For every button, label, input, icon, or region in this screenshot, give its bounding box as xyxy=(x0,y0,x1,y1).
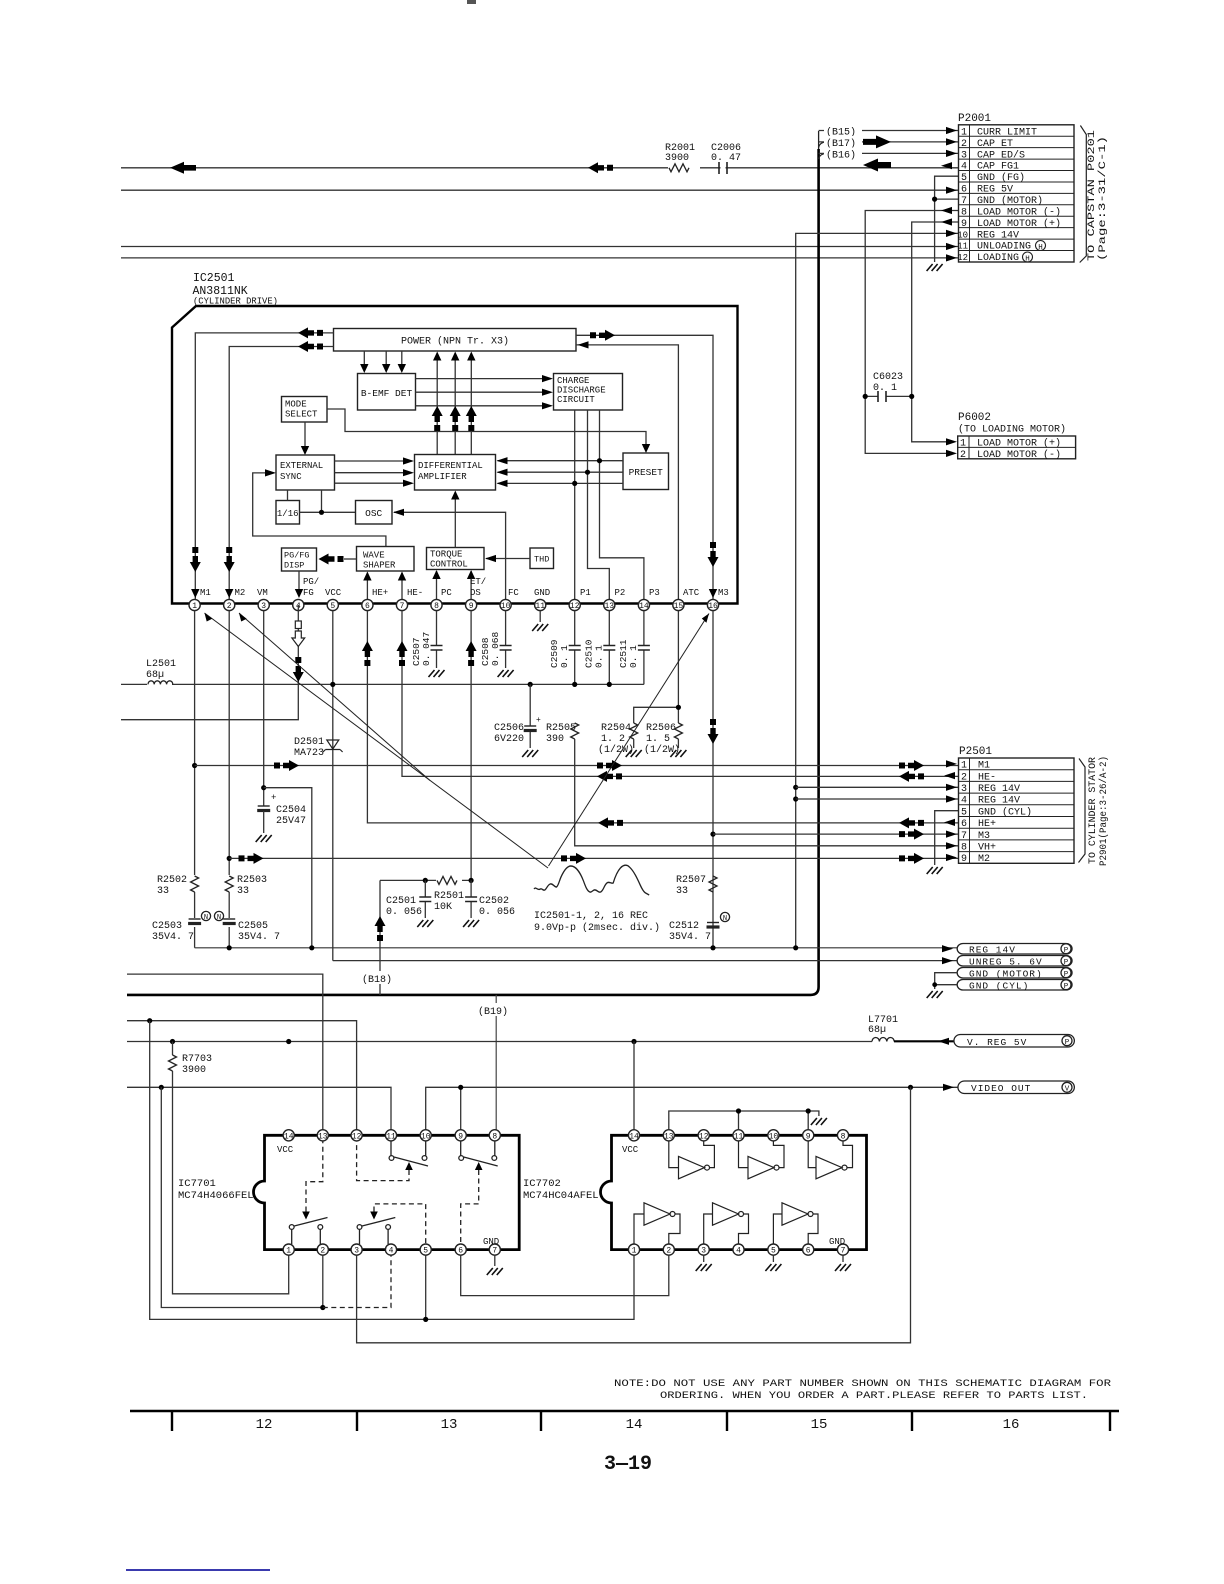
P2001 pin7 GND(MOTOR) wire xyxy=(935,198,958,200)
left arrow on M2 power wire xyxy=(298,341,323,352)
svg-text:N: N xyxy=(204,914,208,922)
svg-text:PC: PC xyxy=(441,588,452,598)
svg-text:2: 2 xyxy=(961,139,967,150)
switch SW1 pins11-10 xyxy=(389,1141,428,1166)
wire C2501/R2501/C2502 node xyxy=(380,879,471,881)
svg-text:C2506: C2506 xyxy=(494,723,524,734)
pin7 HE- vertical and wire to P2501 pin2 xyxy=(402,611,958,777)
svg-text:1. 5: 1. 5 xyxy=(646,734,670,745)
junction dots REG14V vertical to P2501 pins3/4 xyxy=(793,785,798,790)
svg-text:ORDERING. WHEN YOU ORDER A PAR: ORDERING. WHEN YOU ORDER A PART.PLEASE R… xyxy=(660,1390,1088,1402)
svg-text:FC: FC xyxy=(508,588,519,598)
svg-text:LOAD MOTOR (-): LOAD MOTOR (-) xyxy=(977,449,1061,461)
svg-text:15: 15 xyxy=(811,1417,828,1433)
svg-text:2: 2 xyxy=(960,450,966,461)
dashed down arrow on pin16 internal xyxy=(708,542,719,567)
pin2 vertical chain M2 xyxy=(228,611,230,948)
wire POWER right to M3 pin16 xyxy=(576,335,713,599)
svg-text:(B19): (B19) xyxy=(478,1006,508,1018)
svg-text:0. 056: 0. 056 xyxy=(479,907,515,918)
svg-text:VCC: VCC xyxy=(325,588,342,598)
svg-text:+: + xyxy=(536,716,541,725)
svg-text:VH+: VH+ xyxy=(978,843,996,854)
node B15 label xyxy=(824,124,862,136)
svg-text:1. 2: 1. 2 xyxy=(601,734,625,745)
svg-text:10: 10 xyxy=(501,602,511,611)
wire UNLOADING top horizontal xyxy=(121,246,958,248)
dashed down arrow on pin1 internal xyxy=(190,547,201,572)
svg-text:0. 1: 0. 1 xyxy=(628,645,639,668)
wire POWER right to ATC pin15 xyxy=(576,345,678,599)
pin10 FC with C2508 to ground xyxy=(505,611,507,668)
svg-text:3: 3 xyxy=(961,150,967,161)
IC7702 box with left notch xyxy=(601,1135,867,1249)
svg-text:WAVE: WAVE xyxy=(363,551,385,561)
block EXTERNAL SYNC xyxy=(276,455,335,490)
svg-text:11: 11 xyxy=(535,602,545,611)
svg-text:V. REG 5V: V. REG 5V xyxy=(967,1037,1027,1048)
svg-text:UNLOADING: UNLOADING xyxy=(977,242,1031,253)
svg-text:8: 8 xyxy=(961,207,967,218)
svg-text:0. 1: 0. 1 xyxy=(594,645,605,668)
svg-text:1/16: 1/16 xyxy=(277,509,299,519)
svg-text:R2502: R2502 xyxy=(157,875,187,886)
circled N for C2503 xyxy=(201,911,210,920)
ruler numbers xyxy=(256,1417,1020,1433)
VIDEO OUT rail left segment to pin11 IC7701 xyxy=(127,1087,391,1129)
wire TORQUE CONTROL to DIFF AMP xyxy=(454,492,456,548)
wire left stub to pin13 IC7701 top loop xyxy=(127,974,323,1129)
svg-text:IC2501-1, 2, 16 REC: IC2501-1, 2, 16 REC xyxy=(534,911,648,922)
pin13 P2 vertical with C2510 xyxy=(608,611,610,685)
svg-text:L2501: L2501 xyxy=(146,659,176,670)
svg-text:GND: GND xyxy=(534,588,550,598)
svg-text:P: P xyxy=(1064,983,1069,991)
svg-text:VIDEO OUT: VIDEO OUT xyxy=(971,1083,1031,1094)
svg-text:R7703: R7703 xyxy=(182,1054,212,1065)
junction dot pin7/gnd vertical xyxy=(932,197,937,202)
UNREG rail from VCC pin5 xyxy=(333,960,957,962)
svg-text:12: 12 xyxy=(256,1417,273,1433)
svg-text:35V4. 7: 35V4. 7 xyxy=(669,932,711,943)
svg-text:13: 13 xyxy=(664,1132,674,1141)
svg-text:4: 4 xyxy=(389,1247,394,1256)
pin4 white arrow + black arrow xyxy=(297,605,299,684)
inverter U2B top xyxy=(739,1141,785,1179)
svg-text:GND (CYL): GND (CYL) xyxy=(978,806,1032,818)
V.REG 5V rail xyxy=(127,1041,872,1043)
svg-text:9: 9 xyxy=(806,1132,811,1141)
svg-text:10: 10 xyxy=(421,1132,431,1141)
svg-text:B-EMF DET: B-EMF DET xyxy=(361,388,413,399)
bottom wire IC7701 pin6 to IC7702 pin2 xyxy=(461,1255,669,1295)
svg-text:MC74H4066FEL: MC74H4066FEL xyxy=(178,1190,254,1202)
VIDEO OUT rail right segment pins10/9 to pill xyxy=(426,1087,958,1129)
footer ruler line xyxy=(130,1410,1119,1412)
junction dots on preset wires xyxy=(597,458,602,463)
svg-text:IC7701: IC7701 xyxy=(178,1178,216,1190)
pin16 M3 vertical chain xyxy=(712,611,714,948)
pin6 HE+ vertical and wire to P2501 pin6 xyxy=(367,611,958,823)
svg-text:R2507: R2507 xyxy=(676,875,706,886)
thick vertical bus B17 with rounded corner to left-going thick wire xyxy=(818,131,820,150)
svg-text:16: 16 xyxy=(708,602,718,611)
svg-text:C2512: C2512 xyxy=(669,921,699,932)
svg-text:MC74HC04AFEL: MC74HC04AFEL xyxy=(523,1190,599,1202)
wire 1/16 to OSC with branch up xyxy=(300,490,356,512)
diode D2501 MA723 zener xyxy=(293,735,329,757)
svg-text:0. 068: 0. 068 xyxy=(490,631,501,666)
svg-text:P: P xyxy=(1064,959,1069,967)
IC7702 pin14 VCC vertical to rail xyxy=(633,1042,635,1130)
svg-text:IC2501: IC2501 xyxy=(193,272,235,285)
svg-text:P2901(Page:3-26/A-2): P2901(Page:3-26/A-2) xyxy=(1098,756,1110,866)
svg-text:(1/2W): (1/2W) xyxy=(644,744,680,756)
wire M1 to P2501 pin1 xyxy=(195,765,958,767)
pin8 PC vertical with C2507 to ground xyxy=(436,611,438,668)
svg-text:HE+: HE+ xyxy=(372,588,388,598)
blue underline bottom left xyxy=(126,1569,270,1571)
svg-text:SHAPER: SHAPER xyxy=(363,561,396,571)
svg-text:V: V xyxy=(1065,1086,1070,1094)
svg-text:2: 2 xyxy=(961,772,967,783)
capacitor C2502 0.056 xyxy=(470,880,472,918)
svg-text:REG 5V: REG 5V xyxy=(977,185,1013,196)
wire MODE SELECT to PRESET top xyxy=(327,409,646,451)
svg-text:DIFFERENTIAL: DIFFERENTIAL xyxy=(418,461,483,471)
circled N for C2505 xyxy=(214,911,223,920)
svg-text:CONTROL: CONTROL xyxy=(430,560,468,570)
svg-text:(B16): (B16) xyxy=(826,150,856,162)
svg-text:68µ: 68µ xyxy=(868,1025,886,1036)
wire MODE SELECT to EXTERNAL SYNC xyxy=(304,422,306,453)
svg-text:THD: THD xyxy=(534,555,549,565)
svg-text:SELECT: SELECT xyxy=(285,410,318,420)
svg-text:14: 14 xyxy=(639,602,649,611)
P2001 pin5 GND(FG) wire and vertical xyxy=(935,176,958,262)
block PG/FG DISP xyxy=(282,548,317,571)
svg-text:REG 14V: REG 14V xyxy=(978,784,1020,795)
wire WAVE SHAPER to EXTERNAL SYNC xyxy=(253,473,386,547)
wire main L2501 rail xyxy=(121,683,644,685)
svg-text:7: 7 xyxy=(841,1247,846,1256)
svg-text:16: 16 xyxy=(1003,1417,1020,1433)
svg-text:33: 33 xyxy=(676,886,688,897)
pin14 P3 vertical with C2511 xyxy=(643,611,645,685)
wire PG/FG DISP down to pin4 xyxy=(298,571,300,596)
svg-text:10K: 10K xyxy=(434,902,452,913)
wires DIFF AMP up to POWER with dashed up arrows xyxy=(437,353,471,455)
svg-text:C2503: C2503 xyxy=(152,921,182,932)
svg-text:1: 1 xyxy=(961,127,967,138)
svg-text:R2501: R2501 xyxy=(434,891,464,902)
IC7701 bottom pin circles xyxy=(283,1244,500,1255)
block WAVE SHAPER xyxy=(357,547,415,572)
bottom wire IC7701 pin3 to VIDEO OUT rail xyxy=(357,1087,911,1343)
P2001 pin8 LOAD MOTOR(-) wire down to P6002 xyxy=(865,211,958,454)
svg-text:UNREG 5. 6V: UNREG 5. 6V xyxy=(969,956,1043,967)
wire M2 to P2501 pin9 xyxy=(229,857,958,859)
inverter U2D bottom xyxy=(634,1203,680,1244)
svg-text:PG/FG: PG/FG xyxy=(284,551,310,561)
svg-text:REG 14V: REG 14V xyxy=(978,796,1020,807)
capacitor C2006 xyxy=(709,144,749,162)
wire CAP FG1 top horizontal xyxy=(121,167,958,169)
block DIFFERENTIAL AMPLIFIER xyxy=(415,455,496,491)
switch SW4 pins3-4 xyxy=(357,1218,395,1245)
svg-text:GND: GND xyxy=(483,1237,499,1247)
svg-text:+: + xyxy=(271,793,276,803)
svg-text:MODE: MODE xyxy=(285,400,307,410)
svg-text:M3: M3 xyxy=(978,831,990,842)
svg-text:9: 9 xyxy=(458,1132,463,1141)
svg-text:25V47: 25V47 xyxy=(276,816,306,827)
svg-text:13: 13 xyxy=(604,602,614,611)
svg-text:VCC: VCC xyxy=(277,1145,294,1155)
connector P2001 xyxy=(957,113,1109,264)
svg-text:CIRCUIT: CIRCUIT xyxy=(557,395,595,405)
svg-text:33: 33 xyxy=(237,886,249,897)
svg-text:5: 5 xyxy=(330,602,335,611)
svg-text:ET/: ET/ xyxy=(470,577,486,587)
svg-text:1: 1 xyxy=(192,602,197,611)
wire HE+ pin6 up to WAVE SHAPER xyxy=(366,573,368,600)
wire PC pin8 up to TORQUE CONTROL xyxy=(436,571,438,599)
svg-text:14: 14 xyxy=(626,1417,643,1433)
node B16 label xyxy=(824,148,862,160)
svg-text:PG/: PG/ xyxy=(303,577,319,587)
svg-text:M2: M2 xyxy=(235,588,246,598)
arrowheads into P2001 rows xyxy=(946,127,957,134)
svg-text:4: 4 xyxy=(736,1247,741,1256)
block TORQUE CONTROL xyxy=(427,548,485,570)
wire pin2 to POWER left xyxy=(229,347,333,600)
svg-text:13: 13 xyxy=(318,1132,328,1141)
svg-text:4: 4 xyxy=(961,162,967,173)
connector P6002 xyxy=(946,412,1076,461)
svg-text:7: 7 xyxy=(400,602,405,611)
svg-text:REG 14V: REG 14V xyxy=(977,230,1019,241)
svg-text:CHARGE: CHARGE xyxy=(557,376,589,386)
svg-text:CURR LIMIT: CURR LIMIT xyxy=(977,127,1037,138)
svg-text:8: 8 xyxy=(492,1132,497,1141)
waveform oscillogram sketch xyxy=(534,865,649,895)
ground under IC7701 pin7 xyxy=(494,1255,496,1266)
svg-text:LOADING: LOADING xyxy=(977,253,1019,264)
P2001 pin10 REG 14V wire and long vertical xyxy=(796,233,958,947)
svg-text:4: 4 xyxy=(961,796,967,807)
svg-text:5: 5 xyxy=(771,1247,776,1256)
svg-text:NOTE:DO NOT USE ANY PART NUMBE: NOTE:DO NOT USE ANY PART NUMBER SHOWN ON… xyxy=(614,1378,1112,1390)
svg-text:VM: VM xyxy=(257,588,268,598)
svg-text:C2505: C2505 xyxy=(238,921,268,932)
pin1 vertical chain M1 xyxy=(194,611,196,948)
svg-text:12: 12 xyxy=(352,1132,362,1141)
svg-text:6: 6 xyxy=(961,185,967,196)
block MODE SELECT xyxy=(282,397,328,423)
junction dots C6023 xyxy=(863,394,868,399)
block PRESET xyxy=(623,453,669,490)
svg-text:D2501: D2501 xyxy=(294,737,324,748)
svg-text:CAP ET: CAP ET xyxy=(977,139,1013,150)
grounds under IC7702 pins 3,5,7 xyxy=(704,1255,843,1262)
svg-text:R2504: R2504 xyxy=(601,723,631,734)
svg-text:CAP FG1: CAP FG1 xyxy=(977,162,1019,173)
wire HE- pin7 up to WAVE SHAPER xyxy=(401,573,403,600)
IC7702 top pin circles xyxy=(628,1130,848,1141)
svg-text:P2: P2 xyxy=(615,588,626,598)
ground for P2001 GND xyxy=(927,264,943,271)
svg-text:P: P xyxy=(1064,947,1069,955)
svg-text:0. 047: 0. 047 xyxy=(421,632,432,666)
svg-text:6V220: 6V220 xyxy=(494,734,524,745)
IC2501 outer box (cylinder drive IC) xyxy=(172,306,738,604)
svg-text:VCC: VCC xyxy=(622,1145,639,1155)
IC7702 top tie line pins13/11/9 to ground xyxy=(669,1111,819,1130)
pill GND (MOTOR) (P) xyxy=(957,968,1072,980)
svg-text:15: 15 xyxy=(674,602,684,611)
IC7701 box with left notch xyxy=(254,1135,520,1249)
svg-text:H: H xyxy=(1038,244,1043,252)
svg-text:8: 8 xyxy=(841,1132,846,1141)
ground under C2504 xyxy=(256,835,272,842)
wires GND pills to ground xyxy=(935,973,957,989)
svg-text:3: 3 xyxy=(261,602,266,611)
svg-text:7: 7 xyxy=(961,196,967,207)
svg-text:5: 5 xyxy=(423,1247,428,1256)
svg-text:6: 6 xyxy=(365,602,370,611)
svg-text:IC7702: IC7702 xyxy=(523,1178,561,1190)
block B-EMF DET xyxy=(358,374,416,411)
svg-text:3: 3 xyxy=(354,1247,359,1256)
svg-text:C2502: C2502 xyxy=(479,896,509,907)
svg-text:CAP ED/S: CAP ED/S xyxy=(977,149,1025,161)
svg-text:GND (MOTOR): GND (MOTOR) xyxy=(977,195,1043,207)
svg-text:GND (MOTOR): GND (MOTOR) xyxy=(969,968,1043,979)
circled N for C2512 xyxy=(720,912,729,921)
svg-text:C2504: C2504 xyxy=(276,805,306,816)
svg-text:3—19: 3—19 xyxy=(604,1453,652,1476)
svg-text:390: 390 xyxy=(546,734,564,745)
svg-text:0. 1: 0. 1 xyxy=(873,383,897,394)
IC7702 bottom pin circles xyxy=(628,1244,848,1255)
svg-text:5: 5 xyxy=(961,807,967,818)
svg-text:P1: P1 xyxy=(580,588,591,598)
svg-text:0. 056: 0. 056 xyxy=(386,907,422,918)
wire pin1 to POWER left xyxy=(195,333,333,599)
dashed down arrow on pin2 internal xyxy=(224,547,235,572)
waveform note pointer lines to pins 1,2,16 xyxy=(205,613,549,868)
svg-text:HE-: HE- xyxy=(978,772,996,783)
svg-text:PRESET: PRESET xyxy=(629,467,664,478)
svg-text:(TO LOADING MOTOR): (TO LOADING MOTOR) xyxy=(958,424,1066,436)
svg-text:14: 14 xyxy=(629,1132,639,1141)
svg-text:N: N xyxy=(723,915,727,923)
svg-text:GND: GND xyxy=(829,1237,845,1247)
thick right arrow on B17 wire xyxy=(863,135,891,148)
block OSC xyxy=(356,501,393,525)
inverter U2E bottom xyxy=(704,1203,749,1244)
IC7701 top pin circles xyxy=(283,1130,500,1141)
resistor R2001 xyxy=(663,144,709,162)
svg-text:12: 12 xyxy=(699,1132,709,1141)
pill REG 14V (P) xyxy=(957,944,1072,956)
svg-text:9: 9 xyxy=(469,602,474,611)
svg-text:11: 11 xyxy=(386,1132,396,1141)
pin12 P1 vertical with C2509 xyxy=(574,611,576,685)
node B19 vertical from thick bus to IC7701 pin8 xyxy=(495,995,497,1130)
bottom wire IC7701 pin2 dot to pin4 dashed control xyxy=(161,1087,322,1307)
wire lower-left to pin4 vertical xyxy=(121,684,298,719)
wires CHARGE bottom to P1 P2 P3 pins xyxy=(574,410,576,599)
inverter U2F bottom xyxy=(773,1203,818,1244)
svg-text:C6023: C6023 xyxy=(873,372,903,383)
svg-text:35V4. 7: 35V4. 7 xyxy=(238,932,280,943)
svg-text:3900: 3900 xyxy=(665,153,689,164)
svg-text:DS: DS xyxy=(470,588,481,598)
inverter U2A top xyxy=(669,1141,715,1179)
svg-text:M1: M1 xyxy=(978,761,990,772)
svg-text:3: 3 xyxy=(701,1247,706,1256)
svg-text:EXTERNAL: EXTERNAL xyxy=(280,461,323,471)
svg-text:9: 9 xyxy=(961,219,967,230)
svg-text:R2506: R2506 xyxy=(646,723,676,734)
page top tick mark xyxy=(467,0,476,4)
connector P2501 xyxy=(959,746,1111,866)
wire R2504/R2506 top link from ATC xyxy=(634,611,679,723)
svg-text:P: P xyxy=(1064,971,1069,979)
svg-text:33: 33 xyxy=(157,886,169,897)
svg-text:2: 2 xyxy=(227,602,232,611)
big left arrow on CAP FG1 wire xyxy=(170,162,196,174)
wires POWER down to B-EMF DET xyxy=(364,351,402,371)
pill GND (CYL) (P) xyxy=(957,980,1072,992)
svg-text:11: 11 xyxy=(957,242,968,252)
svg-text:6: 6 xyxy=(961,819,967,830)
pill VIDEO OUT (V) xyxy=(958,1081,1074,1094)
P2001 pin9 LOAD MOTOR(+) wire down to P6002 xyxy=(912,222,958,442)
svg-text:P3: P3 xyxy=(649,588,660,598)
capacitor C2501 0.056 xyxy=(424,880,426,918)
IC2501 pin name labels xyxy=(200,577,729,598)
wire REG 14V to P2501 pin4 xyxy=(796,798,958,800)
wire DS pin9 up to TORQUE CONTROL xyxy=(470,571,472,599)
svg-text:R2503: R2503 xyxy=(237,875,267,886)
inverter U2C top xyxy=(808,1141,852,1179)
svg-text:OSC: OSC xyxy=(365,508,382,519)
svg-text:35V4. 7: 35V4. 7 xyxy=(152,932,194,943)
svg-text:HE+: HE+ xyxy=(978,819,996,830)
svg-text:13: 13 xyxy=(441,1417,458,1433)
pin11 GND to ground xyxy=(539,611,541,622)
wire REG 14V to P2501 pin3 xyxy=(796,786,958,788)
svg-text:LOAD MOTOR (-): LOAD MOTOR (-) xyxy=(977,206,1061,218)
pin3 VM vertical with C2504 branch xyxy=(263,611,265,806)
svg-text:HE-: HE- xyxy=(407,588,423,598)
svg-text:8: 8 xyxy=(961,843,967,854)
svg-text:DISCHARGE: DISCHARGE xyxy=(557,386,606,396)
wire REG 5V top horizontal xyxy=(121,189,958,191)
svg-text:GND (CYL): GND (CYL) xyxy=(969,980,1029,991)
svg-text:C2501: C2501 xyxy=(386,896,416,907)
svg-text:5: 5 xyxy=(961,173,967,184)
svg-text:(CYLINDER DRIVE): (CYLINDER DRIVE) xyxy=(193,297,278,307)
svg-text:SYNC: SYNC xyxy=(280,472,302,482)
svg-text:0. 47: 0. 47 xyxy=(711,153,741,164)
svg-text:P2501: P2501 xyxy=(959,746,992,758)
svg-text:8: 8 xyxy=(434,602,439,611)
pill UNREG 5.6V (P) xyxy=(957,956,1072,968)
